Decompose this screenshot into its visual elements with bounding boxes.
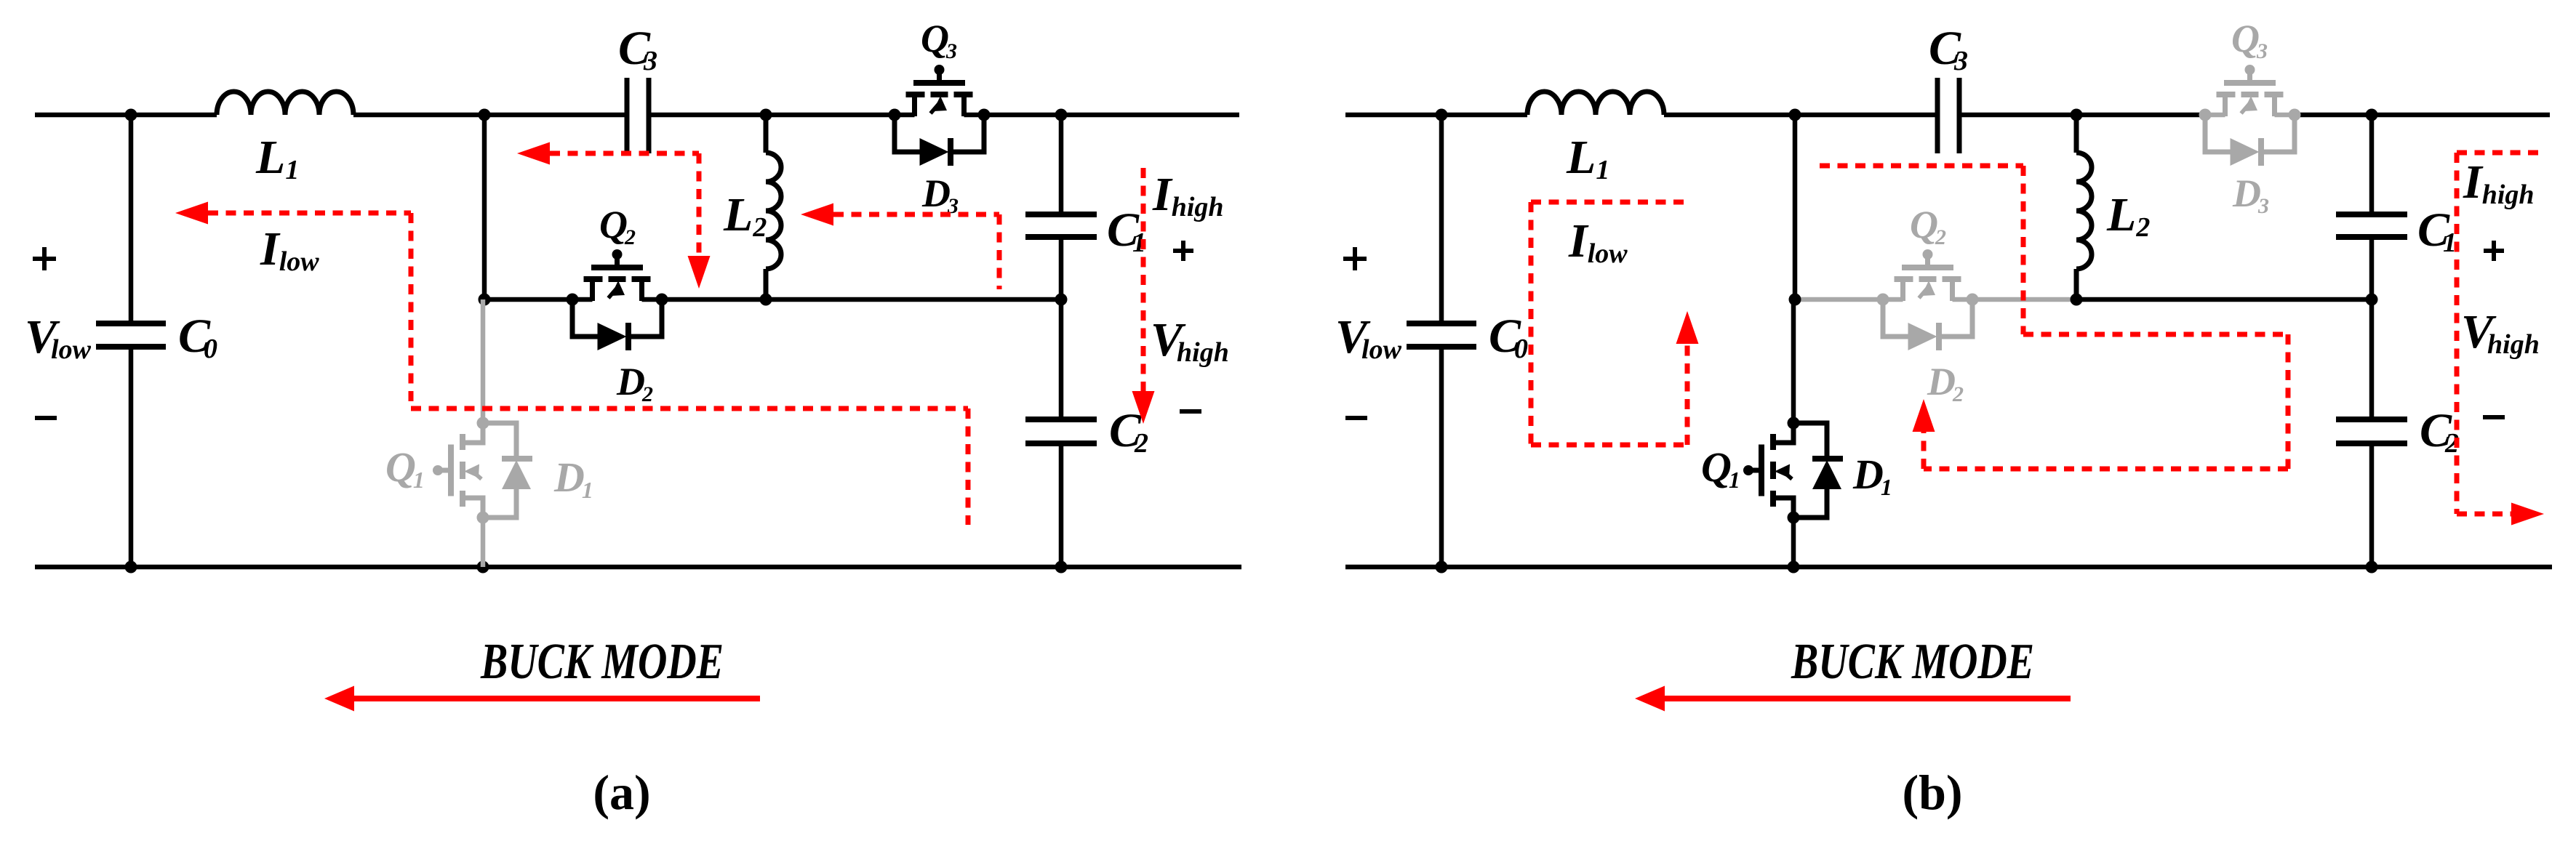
diode D2 bbox=[572, 299, 662, 350]
minus Vlow (b) bbox=[1345, 416, 1367, 420]
node L2 top (b) bbox=[2071, 109, 2083, 121]
wire mid Q2-L2 (a) bbox=[662, 297, 766, 302]
svg-text:Q1: Q1 bbox=[1701, 443, 1740, 493]
wire L2 bottom stub (b) bbox=[2074, 269, 2079, 299]
wire left rail upper (b) bbox=[1439, 115, 1444, 323]
inductor L2 (b) bbox=[2076, 153, 2092, 269]
svg-text:Q3: Q3 bbox=[2231, 17, 2268, 63]
svg-text:C0: C0 bbox=[178, 310, 217, 364]
node right rail top (b) bbox=[2366, 109, 2378, 121]
node Q1 drain bbox=[1788, 417, 1800, 430]
svg-text:D2: D2 bbox=[616, 360, 653, 406]
svg-text:Vlow: Vlow bbox=[25, 310, 92, 365]
wire top rail right of C3 (a) bbox=[649, 113, 895, 118]
wire top rail (a) bbox=[35, 113, 217, 118]
wire Q1 branch lower (a) bbox=[481, 518, 486, 567]
node bottom right (b) bbox=[2366, 561, 2378, 574]
node L2 bottom (a) bbox=[760, 294, 772, 306]
svg-text:L2: L2 bbox=[723, 188, 767, 243]
svg-text:BUCK MODE: BUCK MODE bbox=[1791, 634, 2034, 690]
transistor Q3 bbox=[2205, 65, 2295, 116]
diode D1 bbox=[483, 423, 532, 518]
node mid junction (b) bbox=[1789, 294, 1801, 306]
node Q2 right bbox=[1967, 294, 1979, 306]
minus Vlow (a) bbox=[35, 416, 57, 420]
inductor L1 (b) bbox=[1527, 92, 1664, 115]
wire top rail (b) bbox=[1345, 113, 1527, 118]
node right rail top (a) bbox=[1055, 109, 1068, 121]
svg-text:C1: C1 bbox=[1107, 204, 1146, 258]
svg-text:(b): (b) bbox=[1902, 765, 1962, 820]
current path D3-C1 (a) bbox=[801, 204, 833, 226]
capacitor C0 (b) bbox=[1407, 321, 1476, 326]
wire mid Q2-L2 (b) bbox=[1972, 297, 2076, 302]
node bottom Q1 (a) bbox=[477, 561, 489, 574]
svg-text:Vhigh: Vhigh bbox=[2461, 305, 2540, 360]
capacitor C3 (b) bbox=[1935, 78, 1940, 153]
plus Vlow (a) bbox=[33, 257, 56, 261]
svg-text:L1: L1 bbox=[255, 131, 299, 185]
svg-text:(a): (a) bbox=[593, 765, 650, 820]
svg-text:D1: D1 bbox=[553, 454, 593, 503]
wire right rail bottom (b) bbox=[2369, 443, 2375, 567]
wire Q1 branch upper (b) bbox=[1791, 299, 1796, 423]
wire Q1 branch lower (b) bbox=[1791, 518, 1796, 567]
current path Ihigh (a) bbox=[1141, 168, 1146, 391]
transistor Q3 bbox=[895, 65, 984, 116]
svg-text:Ihigh: Ihigh bbox=[1152, 168, 1224, 222]
wire top rail right of C3 (b) bbox=[1959, 113, 2205, 118]
current path main loop (b) bbox=[1820, 164, 2023, 169]
node Q3 left bbox=[2199, 109, 2212, 121]
svg-text:L2: L2 bbox=[2106, 188, 2150, 243]
node Q3 right bbox=[2289, 109, 2301, 121]
capacitor C3 (a) bbox=[625, 78, 630, 153]
svg-text:Vhigh: Vhigh bbox=[1151, 313, 1229, 368]
transistor Q2 bbox=[1883, 249, 1972, 301]
arrow buck mode (b) bbox=[1663, 696, 2071, 701]
wire right rail mid (a) bbox=[1059, 237, 1064, 419]
capacitor C0 (a) bbox=[96, 321, 166, 326]
wire Q1 branch upper (a) bbox=[481, 299, 486, 423]
plus Vlow (b) bbox=[1343, 257, 1367, 261]
current path Ihigh (b) bbox=[2457, 150, 2538, 156]
minus Vhigh (a) bbox=[1180, 409, 1201, 414]
wire bottom rail (a) bbox=[35, 565, 1241, 570]
node Q3 left bbox=[889, 109, 901, 121]
node bottom Q1 (b) bbox=[1788, 561, 1800, 574]
capacitor C2 (a) bbox=[1025, 417, 1097, 422]
wire top rail after Q3 (b) bbox=[2295, 113, 2550, 118]
capacitor C1 (b) bbox=[2336, 212, 2407, 217]
node top-left (a) bbox=[125, 109, 137, 121]
minus Vhigh (b) bbox=[2483, 415, 2505, 419]
wire L2 bottom stub (a) bbox=[764, 269, 769, 299]
wire L2 top stub (b) bbox=[2074, 115, 2079, 153]
svg-text:Q2: Q2 bbox=[599, 203, 636, 249]
diode D1 bbox=[1793, 423, 1843, 518]
svg-text:C3: C3 bbox=[1929, 22, 1968, 76]
wire right rail top (b) bbox=[2369, 115, 2375, 214]
node top junction (b) bbox=[1789, 109, 1801, 121]
capacitor C1 (a) bbox=[1025, 212, 1097, 217]
diode D3 bbox=[2205, 115, 2295, 166]
svg-text:Q2: Q2 bbox=[1910, 203, 1946, 249]
node Q1 source bbox=[1788, 512, 1800, 524]
node bottom-left (b) bbox=[1436, 561, 1448, 574]
plus Vhigh (b) bbox=[2484, 249, 2504, 253]
wire mid left (a) bbox=[484, 297, 572, 302]
node Q2 left bbox=[1877, 294, 1889, 306]
node Q3 right bbox=[978, 109, 991, 121]
svg-text:C0: C0 bbox=[1489, 310, 1528, 364]
inductor L2 (a) bbox=[766, 153, 781, 269]
wire L2 top stub (a) bbox=[764, 115, 769, 153]
wire mid left (b) bbox=[1795, 297, 1883, 302]
svg-text:L1: L1 bbox=[1566, 131, 1609, 185]
node Q2 right bbox=[656, 294, 668, 306]
capacitor C2 (b) bbox=[2336, 417, 2407, 422]
node bottom right (a) bbox=[1055, 561, 1068, 574]
diode D3 bbox=[895, 115, 984, 166]
inductor L1 (a) bbox=[217, 92, 353, 115]
svg-text:Ihigh: Ihigh bbox=[2463, 156, 2535, 210]
svg-text:C1: C1 bbox=[2417, 204, 2457, 258]
svg-text:D3: D3 bbox=[2232, 172, 2269, 218]
svg-text:Ilow: Ilow bbox=[260, 222, 319, 277]
diode D2 bbox=[1883, 299, 1972, 350]
transistor Q1 bbox=[1743, 424, 1793, 516]
current path Ilow (a) bbox=[175, 202, 208, 225]
svg-text:D2: D2 bbox=[1927, 360, 1964, 406]
wire left rail lower (a) bbox=[129, 347, 134, 567]
node mid right rail (b) bbox=[2366, 294, 2378, 306]
node mid right rail (a) bbox=[1055, 294, 1068, 306]
node top junction (a) bbox=[479, 109, 491, 121]
wire mid right (a) bbox=[766, 297, 1061, 302]
node Q1 source bbox=[477, 512, 489, 524]
wire bottom rail (b) bbox=[1345, 565, 2552, 570]
wire top rail mid (a) bbox=[353, 113, 627, 118]
wire left rail upper (a) bbox=[129, 115, 134, 323]
svg-text:Vlow: Vlow bbox=[1335, 310, 1402, 365]
wire left rail lower (b) bbox=[1439, 347, 1444, 567]
wire right rail bottom (a) bbox=[1059, 443, 1064, 567]
wire junction column (b) bbox=[1793, 115, 1798, 299]
node L2 top (a) bbox=[760, 109, 772, 121]
node bottom-left (a) bbox=[125, 561, 137, 574]
node top-left (b) bbox=[1436, 109, 1448, 121]
current path Ilow loop (b) bbox=[1531, 200, 1690, 205]
svg-text:C2: C2 bbox=[2420, 404, 2459, 459]
svg-text:D3: D3 bbox=[921, 172, 959, 218]
wire top rail after Q3 (a) bbox=[984, 113, 1239, 118]
svg-text:D1: D1 bbox=[1852, 451, 1892, 500]
current path C3 loop (a) bbox=[517, 142, 550, 165]
wire right rail top (a) bbox=[1059, 115, 1064, 214]
wire right rail mid (b) bbox=[2369, 237, 2375, 419]
svg-text:Ilow: Ilow bbox=[1568, 214, 1628, 269]
transistor Q1 bbox=[433, 424, 483, 516]
svg-text:C3: C3 bbox=[618, 22, 657, 76]
wire mid right (b) bbox=[2076, 297, 2372, 302]
arrow buck mode (a) bbox=[353, 696, 760, 701]
svg-text:Q1: Q1 bbox=[385, 443, 425, 493]
node L2 bottom (b) bbox=[2071, 294, 2083, 306]
node Q1 drain bbox=[477, 417, 489, 430]
node Q2 left bbox=[567, 294, 579, 306]
transistor Q2 bbox=[572, 249, 662, 301]
svg-text:Q3: Q3 bbox=[921, 17, 957, 63]
node mid junction (a) bbox=[479, 294, 491, 306]
wire top rail mid (b) bbox=[1664, 113, 1937, 118]
svg-text:BUCK MODE: BUCK MODE bbox=[480, 634, 724, 690]
wire junction column (a) bbox=[482, 115, 487, 299]
plus Vhigh (a) bbox=[1173, 249, 1193, 253]
